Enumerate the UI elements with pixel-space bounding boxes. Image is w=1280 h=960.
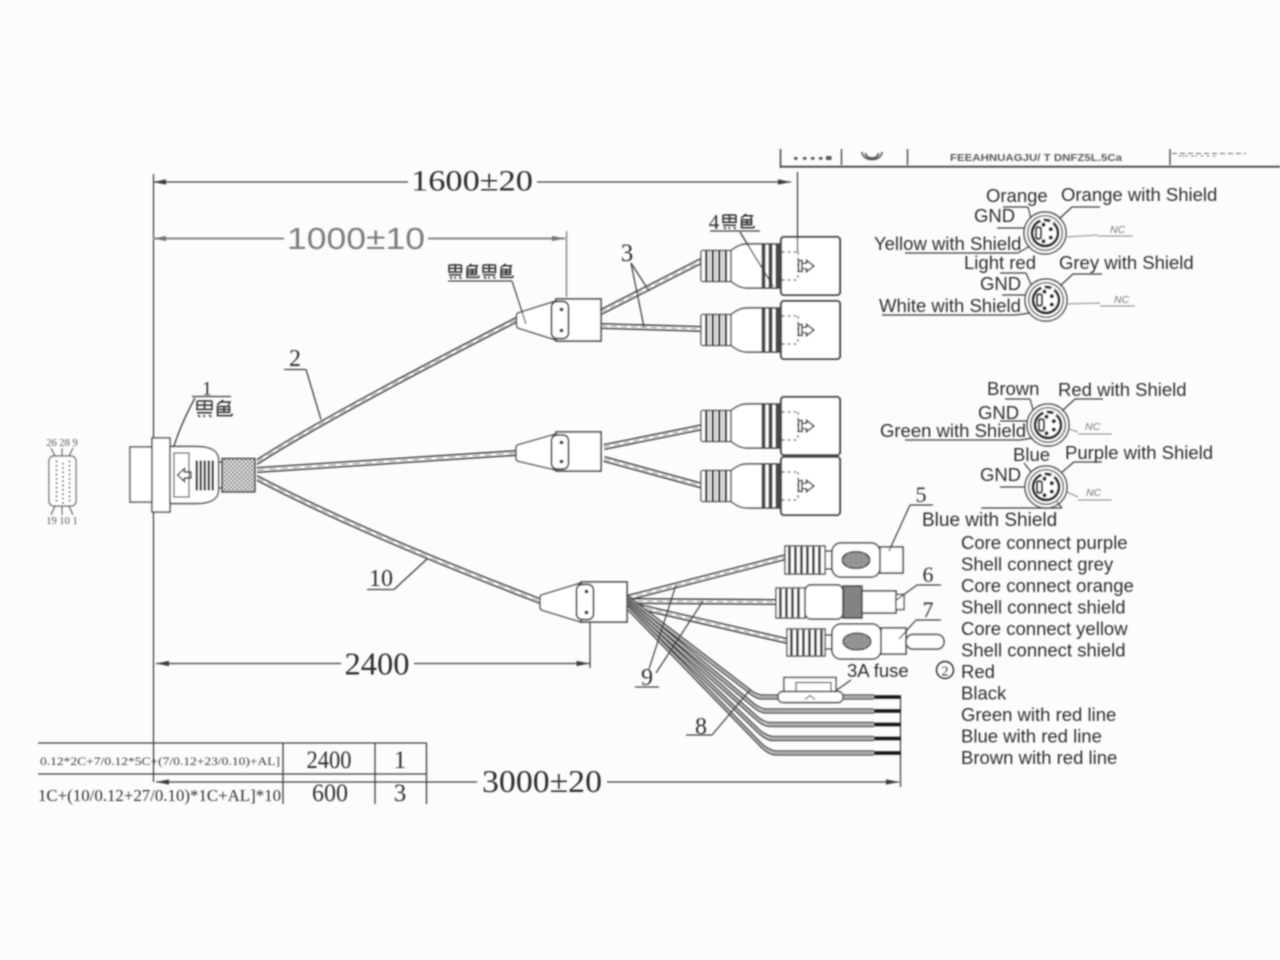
svg-text:Orange: Orange — [986, 185, 1048, 206]
title block border (top right, clipped) — [780, 149, 1280, 168]
DIN2 label Light red — [964, 252, 1036, 285]
svg-text:Shell connect shield: Shell connect shield — [961, 597, 1126, 618]
svg-text:Red with Shield: Red with Shield — [1058, 379, 1187, 400]
extension line for 3000 right — [900, 699, 902, 787]
main connector P1 body — [130, 438, 255, 512]
wire 4 bare end — [874, 737, 901, 741]
svg-text:Grey with Shield: Grey with Shield — [1059, 252, 1194, 273]
dimension 2400 — [156, 646, 590, 682]
mini-DIN diagram 2 — [1025, 279, 1067, 321]
svg-text:Brown with red line: Brown with red line — [961, 747, 1117, 768]
svg-text:--- -- - - -: --- -- - - - — [1178, 151, 1216, 162]
extension line for 2400 right — [589, 612, 591, 668]
wire 3 bare end — [874, 723, 901, 727]
svg-text:6: 6 — [923, 562, 934, 587]
extension line for 1600 right — [797, 172, 799, 252]
svg-text:3A fuse: 3A fuse — [847, 660, 909, 681]
wire splitter1 to USB plug 2 — [601, 328, 703, 331]
label 1 with leader — [165, 378, 231, 476]
svg-text:White with Shield: White with Shield — [879, 295, 1021, 316]
DIN3 label Brown — [987, 378, 1039, 410]
svg-text:8: 8 — [695, 714, 707, 740]
splitter 1 — [517, 299, 602, 341]
svg-text:FEEAHNUAGJU/ T DNFZ5L.5Ca: FEEAHNUAGJU/ T DNFZ5L.5Ca — [950, 152, 1122, 164]
svg-text:5: 5 — [916, 482, 927, 507]
label 6 with leader — [895, 562, 941, 601]
wire 2 (bundle) — [628, 599, 874, 710]
svg-text:Light red: Light red — [964, 252, 1036, 273]
svg-text:Core connect orange: Core connect orange — [961, 575, 1134, 596]
title block small text marks — [794, 156, 832, 160]
svg-text:Black: Black — [961, 683, 1007, 704]
label 1 Chinese text (black) — [197, 400, 233, 417]
svg-text:Green with Shield: Green with Shield — [880, 420, 1026, 441]
svg-text:0.12*2C+7/0.12*5C+(7/0.12+23/0: 0.12*2C+7/0.12*5C+(7/0.12+23/0.10)+AL] — [40, 754, 280, 768]
svg-text:2400: 2400 — [307, 747, 352, 774]
splitter 2 — [516, 432, 601, 471]
svg-text:Core connect purple: Core connect purple — [961, 532, 1128, 553]
USB plug 4 — [701, 457, 840, 515]
wire 2 bare end — [874, 709, 901, 713]
svg-text:Yellow with Shield: Yellow with Shield — [874, 233, 1021, 254]
cable to splitter 1 — [257, 317, 518, 460]
svg-text:2400: 2400 — [345, 646, 410, 682]
DIN3 label Red with Shield — [1058, 379, 1187, 411]
svg-text:2: 2 — [289, 346, 301, 372]
connector 5 (4-pin plug) — [785, 543, 903, 577]
svg-text:7: 7 — [923, 597, 934, 622]
cable splitter3 to connector 7 — [626, 606, 786, 643]
DIN4 label Purple with Shield — [1061, 442, 1213, 473]
svg-text:Shell connect shield: Shell connect shield — [961, 640, 1126, 661]
DIN4 label Blue — [1013, 444, 1050, 472]
svg-text:1000±10: 1000±10 — [287, 221, 425, 256]
wire 3 (bundle) — [628, 601, 874, 723]
DIN2 label Grey with Shield — [1059, 252, 1194, 286]
label 9 with leaders — [635, 585, 703, 691]
connector 7 (RCA plug) — [787, 624, 944, 659]
mini-DIN diagram 1 — [1024, 212, 1066, 254]
svg-text:NC: NC — [1085, 421, 1101, 433]
svg-text:2: 2 — [942, 665, 949, 680]
DIN1 label Orange — [986, 185, 1048, 219]
USB plug 2 — [701, 301, 840, 359]
label 10 with leader — [367, 559, 427, 592]
DIN4 label GND — [980, 464, 1025, 487]
extension line for 1000 right — [566, 231, 568, 297]
svg-text:19 10 1: 19 10 1 — [46, 516, 78, 527]
svg-text:NC: NC — [1086, 487, 1102, 499]
DIN2 label White with Shield — [879, 295, 1030, 316]
black clip label (Chinese) — [449, 264, 514, 279]
svg-text:1: 1 — [394, 747, 407, 774]
label 4 leader over connector — [740, 232, 773, 286]
DIN2 label NC — [1066, 294, 1135, 306]
svg-text:GND: GND — [980, 273, 1021, 294]
svg-text:Orange with Shield: Orange with Shield — [1061, 184, 1217, 205]
svg-text:Red: Red — [961, 661, 995, 682]
wire 5 bare end — [874, 751, 901, 755]
svg-text:10: 10 — [369, 566, 393, 592]
wire splitter1 to USB plug 1 — [602, 262, 704, 314]
USB plug 3 — [701, 397, 840, 455]
3A fuse holder — [778, 678, 843, 703]
wire splitter2 to USB plug 4 — [603, 461, 702, 488]
svg-text:GND: GND — [980, 464, 1021, 485]
wire 5 (bundle) — [628, 606, 874, 751]
DIN1 label Orange with Shield — [1059, 184, 1217, 219]
label 3A fuse with leader — [834, 660, 909, 692]
wire 4 (bundle) — [628, 604, 874, 737]
svg-text:3000±20: 3000±20 — [482, 763, 602, 799]
svg-text:GND: GND — [974, 205, 1015, 226]
cable spec table — [38, 743, 427, 804]
label 5 with leader — [889, 482, 933, 551]
splitter 3 — [540, 582, 627, 622]
DIN3 label Green with Shield — [880, 420, 1033, 441]
svg-text:Blue with Shield: Blue with Shield — [922, 510, 1057, 531]
svg-text:1C+(10/0.12+27/0.10)*1C+AL]*10: 1C+(10/0.12+27/0.10)*1C+AL]*10 — [38, 786, 281, 805]
connector 6 (DC power plug) — [776, 585, 904, 619]
pin-face diagram body — [49, 448, 76, 515]
cable splitter3 to connector 6 — [627, 603, 776, 604]
extension 1600 segment inside shell — [797, 238, 799, 252]
wire 1 bare end — [874, 695, 901, 699]
DIN4 label Blue with Shield — [922, 502, 1062, 531]
cable splitter3 to connector 5 — [628, 559, 787, 600]
DIN1 label Yellow with Shield — [874, 233, 1030, 254]
svg-text:Blue with red line: Blue with red line — [961, 726, 1102, 747]
cable to splitter 3 — [257, 476, 540, 599]
label 4 black (Chinese) with leader — [709, 210, 720, 234]
svg-text:NC: NC — [1114, 294, 1130, 306]
dimension 1600±20 — [153, 165, 791, 198]
svg-text:Purple with Shield: Purple with Shield — [1065, 442, 1213, 463]
extension line left (x=153) — [153, 174, 155, 782]
label 2 with leader — [284, 346, 321, 420]
DIN2 label GND — [980, 273, 1026, 295]
mini-DIN diagram 4 — [1025, 466, 1067, 508]
label 7 with leader — [899, 597, 941, 639]
DIN1 label GND — [974, 205, 1025, 228]
svg-text:Shell connect grey: Shell connect grey — [961, 554, 1114, 575]
wire 1 (bundle) — [628, 596, 874, 695]
svg-text:600: 600 — [312, 780, 348, 807]
black clip leader — [448, 280, 512, 282]
note circled 2 — [937, 662, 954, 679]
svg-text:1600±20: 1600±20 — [411, 165, 533, 198]
dimension 3000±20 — [156, 763, 899, 799]
cable to splitter 2 — [257, 455, 516, 472]
svg-text:Green with red line: Green with red line — [961, 704, 1116, 725]
svg-text:Blue: Blue — [1013, 444, 1050, 465]
label 8 with leader — [686, 690, 750, 740]
title block logo — [862, 152, 882, 160]
DIN1 label NC — [1065, 224, 1133, 237]
DIN3 label GND — [978, 402, 1028, 423]
svg-text:Core connect yellow: Core connect yellow — [961, 618, 1128, 639]
svg-text:NC: NC — [1110, 224, 1126, 236]
USB plug 1 — [701, 237, 840, 295]
mini-DIN diagram 3 — [1027, 404, 1069, 446]
svg-text:26 28 9: 26 28 9 — [46, 438, 78, 449]
dimension 1000±10 — [153, 221, 565, 256]
DIN4 label NC — [1067, 487, 1112, 500]
svg-text:3: 3 — [394, 780, 407, 807]
wire splitter2 to USB plug 3 — [604, 429, 703, 449]
label 3 with leader — [621, 240, 649, 327]
svg-text:Brown: Brown — [987, 378, 1039, 399]
DIN3 label NC — [1069, 421, 1112, 434]
